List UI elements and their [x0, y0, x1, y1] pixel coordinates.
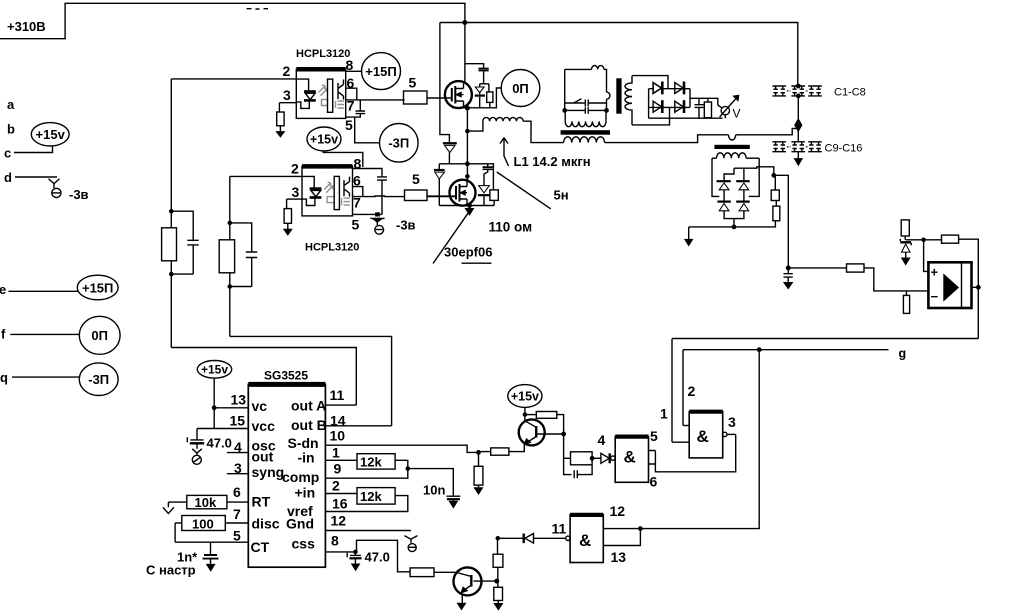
svg-text:5: 5: [409, 75, 417, 91]
svg-text:3: 3: [292, 184, 300, 200]
svg-text:8: 8: [331, 532, 339, 548]
svg-text:+15П: +15П: [365, 64, 396, 79]
svg-text:1: 1: [660, 405, 668, 421]
svg-text:+15v: +15v: [36, 127, 66, 142]
svg-text:RT: RT: [252, 494, 271, 510]
svg-text:6: 6: [233, 484, 241, 500]
svg-text:8: 8: [354, 155, 362, 171]
svg-text:3: 3: [728, 414, 736, 430]
svg-text:6: 6: [650, 474, 658, 490]
svg-text:out: out: [252, 449, 274, 465]
svg-text:0П: 0П: [512, 81, 529, 96]
svg-text:30epf06: 30epf06: [444, 245, 492, 260]
svg-text:8: 8: [346, 57, 354, 73]
svg-text:15: 15: [230, 412, 246, 428]
svg-text:9: 9: [334, 461, 342, 477]
svg-text:5: 5: [650, 428, 658, 444]
svg-text:4: 4: [234, 439, 242, 455]
svg-text:2: 2: [688, 383, 696, 399]
svg-text:disc: disc: [252, 516, 280, 532]
svg-text:0П: 0П: [91, 328, 108, 343]
svg-text:e: e: [0, 282, 6, 297]
svg-text:-3в: -3в: [69, 187, 89, 202]
svg-text:1: 1: [332, 445, 340, 461]
svg-text:3: 3: [234, 460, 242, 476]
svg-text:16: 16: [332, 495, 348, 511]
svg-text:-in: -in: [298, 449, 315, 465]
svg-text:47.0: 47.0: [207, 436, 232, 451]
svg-text:7: 7: [233, 506, 241, 522]
svg-text:-3в: -3в: [396, 218, 416, 233]
svg-text:11: 11: [330, 387, 345, 403]
svg-text:11: 11: [552, 521, 567, 537]
svg-text:100: 100: [192, 516, 214, 531]
svg-text:7: 7: [347, 97, 355, 113]
svg-text:14: 14: [330, 412, 346, 428]
svg-text:+in: +in: [295, 485, 316, 501]
svg-text:-3П: -3П: [88, 372, 109, 387]
svg-text:vcc: vcc: [252, 418, 276, 434]
svg-text:10k: 10k: [195, 495, 217, 510]
svg-text:vc: vc: [252, 398, 268, 414]
svg-text:out A: out A: [291, 397, 326, 413]
svg-text:10: 10: [330, 428, 346, 444]
svg-text:5: 5: [412, 171, 420, 187]
svg-text:&: &: [624, 448, 636, 467]
svg-text:+15v: +15v: [201, 363, 228, 377]
svg-text:-3П: -3П: [388, 136, 409, 151]
svg-text:a: a: [7, 97, 15, 112]
svg-text:12k: 12k: [360, 489, 382, 504]
svg-text:c: c: [4, 146, 11, 161]
svg-text:4: 4: [598, 432, 606, 448]
svg-text:−: −: [931, 289, 939, 304]
svg-text:C1-C8: C1-C8: [834, 87, 866, 99]
svg-text:5: 5: [352, 216, 360, 232]
svg-text:12: 12: [610, 503, 626, 519]
svg-text:+: +: [931, 265, 939, 280]
svg-text:q: q: [0, 370, 8, 385]
svg-text:f: f: [1, 327, 6, 342]
svg-text:HCPL3120: HCPL3120: [305, 242, 359, 254]
svg-text:3: 3: [283, 87, 291, 103]
svg-text:+15П: +15П: [82, 280, 113, 295]
svg-text:comp: comp: [282, 469, 319, 485]
svg-text:&: &: [697, 427, 709, 446]
svg-text:2: 2: [283, 63, 291, 79]
svg-text:13: 13: [231, 392, 247, 408]
svg-text:13: 13: [611, 549, 627, 565]
svg-text:g: g: [899, 347, 907, 361]
svg-text:+15v: +15v: [310, 133, 338, 147]
svg-text:6: 6: [347, 75, 355, 91]
svg-text:5: 5: [233, 528, 241, 544]
svg-text:47.0: 47.0: [365, 549, 390, 564]
svg-text:syng: syng: [252, 464, 285, 480]
svg-text:d: d: [4, 170, 12, 185]
svg-text:out B: out B: [291, 417, 327, 433]
svg-text:6: 6: [353, 173, 361, 189]
svg-text:css: css: [292, 536, 316, 552]
svg-text:2: 2: [332, 478, 340, 494]
svg-text:7: 7: [353, 194, 361, 210]
svg-text:C9-C16: C9-C16: [825, 143, 863, 155]
svg-text:Gnd: Gnd: [286, 515, 314, 531]
svg-text:2: 2: [291, 161, 299, 177]
svg-text:5: 5: [345, 117, 353, 133]
svg-text:+310В: +310В: [7, 19, 46, 34]
svg-text:HCPL3120: HCPL3120: [296, 48, 350, 60]
svg-text:&: &: [579, 531, 591, 550]
svg-text:b: b: [7, 122, 15, 137]
svg-text:110 ом: 110 ом: [489, 220, 533, 235]
svg-text:SG3525: SG3525: [264, 369, 308, 383]
svg-text:10n: 10n: [423, 483, 445, 498]
svg-text:L1 14.2 мкгн: L1 14.2 мкгн: [514, 154, 591, 169]
svg-text:С настр: С настр: [146, 563, 196, 578]
svg-text:+15v: +15v: [511, 389, 539, 403]
svg-text:12: 12: [331, 512, 347, 528]
svg-text:CT: CT: [251, 539, 270, 555]
svg-text:V: V: [733, 106, 741, 120]
svg-text:12k: 12k: [360, 455, 382, 470]
svg-text:5н: 5н: [554, 188, 569, 203]
